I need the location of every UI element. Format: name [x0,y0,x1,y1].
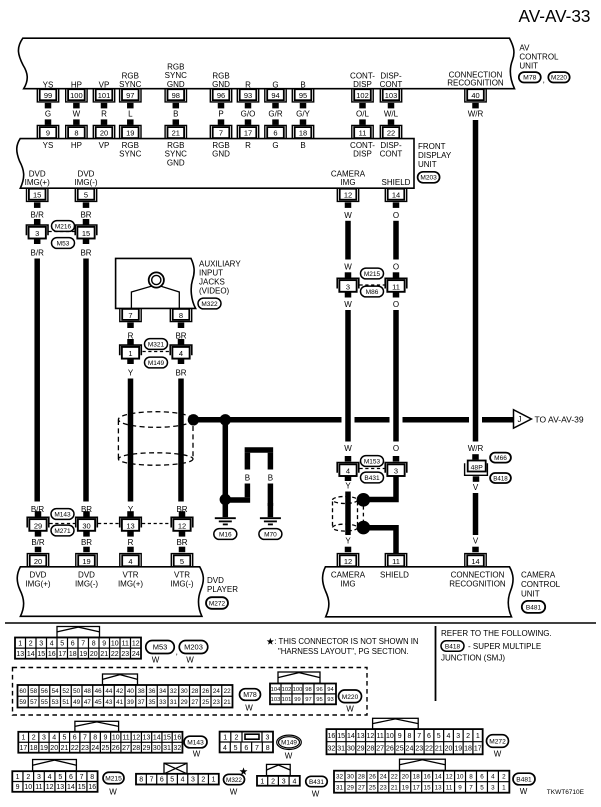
svg-text:30: 30 [181,688,189,695]
svg-text:20: 20 [34,557,42,566]
wire shield drain to pin 11 [366,528,396,553]
svg-text:24: 24 [380,773,388,780]
svg-text:97: 97 [126,91,134,100]
svg-text:15: 15 [82,229,90,238]
pin 93 (R) AV control unit [237,80,258,102]
svg-text:2: 2 [26,774,30,781]
svg-text:19: 19 [82,557,90,566]
svg-text:16: 16 [424,773,432,780]
svg-text:O/L: O/L [356,109,369,118]
svg-text:FRONT: FRONT [418,142,446,151]
svg-text:R: R [128,538,134,547]
svg-text:35: 35 [148,699,156,706]
svg-text:19: 19 [40,745,48,752]
svg-text:9: 9 [46,129,50,138]
pin 5 (DVD IMG(-)) front display unit [74,169,97,201]
connector face B481 [334,759,509,793]
connector ref M86 [361,286,384,297]
svg-text:UNIT: UNIT [418,160,437,169]
svg-text:VTR: VTR [174,571,190,580]
svg-text:B481: B481 [516,777,532,784]
svg-text:30: 30 [82,521,90,530]
junction dot A (shield to bus) [188,414,199,425]
connector 1 (M321/M149) [120,345,142,359]
svg-text:100: 100 [293,687,303,693]
svg-text:CAMERA: CAMERA [331,169,366,178]
label W under M149 [285,752,293,761]
svg-text:27: 27 [191,699,199,706]
svg-text:5: 5 [63,735,67,742]
svg-text:7: 7 [469,784,473,791]
svg-text:21: 21 [100,651,108,658]
svg-text:12: 12 [446,773,454,780]
svg-text:14: 14 [27,651,35,658]
svg-text:GND: GND [212,80,230,89]
svg-text:22: 22 [224,688,232,695]
svg-text:5: 5 [84,191,88,200]
svg-text:7: 7 [417,733,421,740]
svg-text:7: 7 [83,735,87,742]
svg-text:14: 14 [67,784,75,791]
pin 40 (CONNECTION RECOGNITION) AV control unit [447,71,504,102]
svg-text:22: 22 [71,745,79,752]
dashed link M216/M53 [49,231,77,233]
pin 17 (R) front display unit [237,125,258,149]
pin 94 (G) AV control unit [265,80,286,102]
svg-text:19: 19 [402,784,410,791]
pin 4 (VTR IMG(+)) DVD player [118,554,143,589]
svg-text:BR: BR [80,249,91,258]
label W under B431 [312,789,320,798]
svg-text:17: 17 [58,651,66,658]
svg-text:IMG(-): IMG(-) [170,579,193,588]
svg-text:M143: M143 [187,740,204,747]
connector ref M272 bottom [487,735,509,748]
connector ref M216 [52,221,75,232]
wire B/R long segment [31,239,45,515]
pin 18 (B) front display unit [292,125,313,149]
pin 6 (G) front display unit [265,125,286,149]
separator line [5,622,596,624]
svg-text:M203: M203 [420,175,437,182]
connector ref M271 inline [51,525,74,536]
wire O/L [356,103,369,125]
svg-text:7: 7 [150,777,154,784]
svg-text:B418: B418 [493,475,508,482]
svg-text:28: 28 [358,773,366,780]
wire BR aux long segment [175,359,187,515]
svg-text:4: 4 [128,557,132,566]
svg-text:102: 102 [356,91,369,100]
svg-text:W: W [344,211,352,220]
svg-text:6: 6 [480,773,484,780]
svg-text:W: W [73,109,81,118]
svg-text:31: 31 [337,746,345,753]
label W under M272 [494,750,502,759]
pin 12 (CAMERA IMG) front display unit [331,169,366,201]
svg-text:B418: B418 [445,643,461,650]
svg-text:26: 26 [202,688,210,695]
svg-text:17: 17 [413,784,421,791]
svg-text:DVD: DVD [29,169,46,178]
svg-text:Y: Y [345,482,351,491]
connector face B431 [257,764,300,785]
svg-text:G/O: G/O [241,109,256,118]
wire G/Y [296,103,310,125]
svg-text:AV-AV-33: AV-AV-33 [519,6,591,26]
wire R lower segment [127,531,134,552]
junction dot C [220,494,231,505]
title AV-AV-33 [519,6,591,26]
wire B [173,103,180,125]
svg-text:B: B [268,474,273,483]
shield braid cylinder (dashed) [118,412,193,465]
svg-text:R: R [245,141,251,150]
svg-text:3: 3 [346,282,350,291]
svg-text:B/R: B/R [31,211,45,220]
svg-text:15: 15 [33,191,41,200]
wire BR upper segment [80,202,91,224]
svg-text:G: G [45,109,51,118]
connector ref M78 [519,72,545,84]
svg-text:3: 3 [491,784,495,791]
svg-text:(VIDEO): (VIDEO) [199,287,230,296]
svg-text:13: 13 [357,733,365,740]
svg-text:M53: M53 [57,240,70,247]
svg-text:VTR: VTR [123,571,139,580]
connector face M215 [12,760,97,792]
svg-text:54: 54 [52,688,60,695]
svg-text:SYNC: SYNC [119,80,141,89]
pin 21 (RGB/SYNC/GND) front display unit [165,125,187,167]
svg-text:3: 3 [266,735,270,742]
svg-text:23: 23 [121,651,129,658]
svg-text:5: 5 [437,733,441,740]
svg-text:3: 3 [42,735,46,742]
pin 97 (RGB/SYNC) AV control unit [119,71,141,102]
svg-text:3: 3 [456,733,460,740]
AV control unit box [18,38,514,88]
svg-text:1: 1 [223,735,227,742]
ground M16 [215,503,236,524]
svg-text:10: 10 [111,640,119,647]
svg-text:17: 17 [244,129,252,138]
svg-text:6: 6 [71,640,75,647]
svg-text:49: 49 [73,699,81,706]
svg-text:11: 11 [392,282,400,291]
svg-text:4: 4 [50,640,54,647]
svg-text:50: 50 [73,688,81,695]
svg-text:39: 39 [127,699,135,706]
svg-text:M321: M321 [148,341,165,348]
connector 12 (M143/M271) [171,511,193,531]
svg-text:2: 2 [32,735,36,742]
pin 8 (HP) front display unit [66,125,87,149]
wire R segment [127,323,134,345]
svg-text:8: 8 [90,774,94,781]
connector face M322 [136,763,219,784]
svg-text:W: W [109,787,117,796]
svg-text:B/R: B/R [31,249,45,258]
svg-text:24: 24 [406,746,414,753]
auxiliary input jacks box [116,258,196,308]
pin 20 (VP) front display unit [93,125,114,149]
svg-text:M220: M220 [342,694,359,701]
svg-text:6: 6 [244,745,248,752]
svg-text:20: 20 [50,745,58,752]
note REFER TO THE FOLLOWING [441,629,552,638]
label FRONT DISPLAY UNIT [418,142,452,169]
svg-text:V: V [473,483,479,492]
svg-text:14: 14 [471,557,479,566]
connector ref M153 [361,456,384,467]
svg-text:UNIT: UNIT [521,590,540,599]
svg-text:DISP-: DISP- [380,141,402,150]
svg-text:29: 29 [34,521,42,530]
svg-text:M143: M143 [54,511,71,518]
svg-text:CAMERA: CAMERA [331,571,366,580]
svg-text:97: 97 [305,697,311,703]
svg-text:15: 15 [78,784,86,791]
svg-text:GND: GND [167,158,185,167]
svg-text:DISP: DISP [353,80,372,89]
wire bus to arrow (with crossover gaps) [225,417,514,423]
svg-text:15: 15 [337,733,345,740]
svg-text:YS: YS [43,80,54,89]
svg-text:BR: BR [175,369,186,378]
svg-text:CAMERA: CAMERA [521,571,556,580]
svg-text:27: 27 [122,745,130,752]
connector 3 (M216/M53) [26,225,48,239]
svg-text:TO AV-AV-39: TO AV-AV-39 [535,415,584,425]
svg-text:RECOGNITION: RECOGNITION [447,79,504,88]
svg-text:28: 28 [132,745,140,752]
svg-text:22: 22 [387,129,395,138]
svg-text:B481: B481 [526,604,542,611]
note SUPER MULTIPLE JUNCTION [441,642,541,663]
svg-text:6: 6 [427,733,431,740]
svg-text:L: L [128,109,133,118]
pin 20 (DVD IMG(+)) DVD player [25,554,50,589]
svg-text:29: 29 [347,784,355,791]
svg-text:G: G [272,80,278,89]
wire O segment 2 (crosses bus) [393,292,400,462]
svg-text:M216: M216 [55,223,72,230]
svg-text:1: 1 [16,774,20,781]
connector 4 (M321/M149) [170,345,192,359]
connector ref B418 note [441,641,464,651]
label DVD PLAYER [207,576,238,594]
connector ref M215 inline [361,268,384,279]
svg-text:21: 21 [172,129,180,138]
svg-text:M53: M53 [153,643,168,652]
svg-text:DISPLAY: DISPLAY [418,151,452,160]
svg-text:31: 31 [163,745,171,752]
svg-text:18: 18 [464,746,472,753]
wire W/R vertical long [468,103,484,460]
svg-text:AV: AV [519,43,530,52]
wire BR lower segment 2 [176,531,187,552]
svg-text:GND: GND [167,80,185,89]
svg-text:103: 103 [385,91,398,100]
svg-text:6: 6 [160,777,164,784]
svg-text:6: 6 [73,735,77,742]
svg-text:RGB: RGB [122,71,139,80]
svg-text:W: W [344,300,352,309]
wire W segment 2 (crosses bus) [344,292,352,462]
svg-text:R: R [245,80,251,89]
svg-text:M271: M271 [54,528,71,535]
connector 15 (M216/M53) [75,225,97,239]
svg-text:8: 8 [179,311,183,320]
svg-text:38: 38 [138,688,146,695]
svg-text:DISP: DISP [353,150,372,159]
connector ref M143 inline [51,509,74,520]
svg-text:4: 4 [181,777,185,784]
svg-text:M322: M322 [201,301,218,308]
svg-text:B: B [173,109,178,118]
connector ref M143 bottom [184,736,207,748]
svg-text:10: 10 [112,735,120,742]
svg-text:21: 21 [435,746,443,753]
svg-text:26: 26 [112,745,120,752]
pin 14 (SHIELD) front display unit [382,178,411,201]
svg-text:W: W [152,656,160,665]
svg-text:98: 98 [172,91,180,100]
pin 19 (DVD IMG(-)) DVD player [75,554,98,589]
svg-text:34: 34 [159,688,167,695]
svg-text:SYNC: SYNC [119,150,141,159]
svg-text:B/R: B/R [31,538,45,547]
svg-text:13: 13 [56,784,64,791]
svg-text:,: , [543,76,545,85]
wire BR long segment [80,239,92,515]
svg-text:PLAYER: PLAYER [207,585,238,594]
svg-text:24: 24 [132,651,140,658]
svg-text:M215: M215 [364,271,381,278]
svg-text:8: 8 [139,777,143,784]
svg-text:25: 25 [202,699,210,706]
svg-text:JUNCTION (SMJ): JUNCTION (SMJ) [441,654,505,663]
shield capsule (dashed mini cylinder) [333,497,358,532]
svg-text:99: 99 [294,697,300,703]
connector ref M149 bottom [277,735,302,749]
svg-text:11: 11 [122,640,129,647]
svg-text:12: 12 [46,784,54,791]
svg-text:96: 96 [316,687,322,693]
svg-text:V: V [473,537,479,546]
dash link between shield dots [362,506,364,521]
connector ref M321 [145,339,168,350]
svg-text:32: 32 [170,688,178,695]
svg-text:"HARNESS LAYOUT", PG SECTION.: "HARNESS LAYOUT", PG SECTION. [278,647,409,656]
svg-text:15: 15 [163,735,171,742]
SMJ dashed box [13,668,368,716]
svg-text:REFER TO THE FOLLOWING.: REFER TO THE FOLLOWING. [441,629,552,638]
connector 13 (M143/M271) [120,511,171,531]
label W under M220 [346,705,354,714]
svg-text:4: 4 [292,778,296,785]
svg-text:IMG: IMG [340,579,355,588]
svg-text:1: 1 [260,778,264,785]
connector ref M149 inline [145,357,168,368]
svg-text:M203: M203 [184,643,203,652]
svg-text:25: 25 [396,746,404,753]
svg-text:M16: M16 [219,531,232,538]
svg-text:M153: M153 [364,458,381,465]
svg-text:21: 21 [391,784,399,791]
asterisk M322 [240,767,248,775]
svg-text:G: G [272,141,278,150]
svg-text:11: 11 [122,735,129,742]
svg-text:GND: GND [212,150,230,159]
svg-text:SHIELD: SHIELD [382,178,411,187]
svg-text:103: 103 [271,697,281,703]
connector ref M78 bottom [240,689,261,701]
svg-text:B431: B431 [364,475,380,482]
wire B/R lower segment [31,531,45,552]
junction dot B [220,414,231,425]
svg-text:W/R: W/R [468,109,484,118]
svg-text:51: 51 [62,699,70,706]
svg-text:10: 10 [386,733,394,740]
svg-text:: THIS CONNECTOR IS NOT SHOWN: : THIS CONNECTOR IS NOT SHOWN IN [274,637,418,646]
svg-text:W: W [494,750,502,759]
svg-text:47: 47 [84,699,92,706]
svg-text:2: 2 [271,778,275,785]
wire B/R upper segment [31,202,45,224]
wire B loop [228,450,273,506]
svg-text:2: 2 [502,773,506,780]
svg-text:CONTROL: CONTROL [519,52,559,61]
svg-text:17: 17 [20,745,28,752]
svg-text:16: 16 [88,784,96,791]
svg-text:W: W [230,787,238,796]
svg-text:6: 6 [69,774,73,781]
svg-text:CONTROL: CONTROL [521,580,561,589]
svg-text:O: O [393,300,399,309]
svg-text:11: 11 [377,733,384,740]
svg-text:12: 12 [178,521,186,530]
svg-text:DVD: DVD [30,571,47,580]
svg-text:37: 37 [138,699,146,706]
svg-text:52: 52 [62,688,70,695]
wire BR aux segment [175,323,186,345]
svg-text:IMG(+): IMG(+) [25,178,50,187]
pin 15 (DVD IMG(+)) front display unit [25,169,50,201]
svg-text:4: 4 [346,467,350,476]
connector face M78 (SMJ) [18,674,233,708]
pin 11 (SHIELD) camera control unit [380,554,409,580]
connector ref M220 bottom [339,690,362,703]
svg-text:W/L: W/L [384,109,399,118]
pin 99 (YS) AV control unit [37,80,58,102]
connector ref B418 inline [490,473,511,483]
wire W/L [384,103,399,125]
wire Y long segment [127,359,134,515]
svg-text:25: 25 [369,784,377,791]
svg-text:1: 1 [476,733,480,740]
pin 9 (YS) front display unit [37,125,58,149]
svg-text:27: 27 [376,746,384,753]
dashed link M153/B431 [360,468,386,470]
svg-text:2: 2 [466,733,470,740]
svg-text:13: 13 [143,735,151,742]
svg-text:20: 20 [402,773,410,780]
svg-text:9: 9 [398,733,402,740]
svg-text:20: 20 [100,129,108,138]
svg-text:M78: M78 [243,692,257,699]
